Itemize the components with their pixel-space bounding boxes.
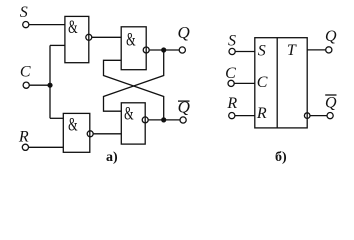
svg-text:C: C <box>257 74 268 91</box>
wire S to gate D1 <box>29 24 65 26</box>
input terminal C (circuit b) <box>228 80 234 86</box>
svg-text:C: C <box>225 65 236 82</box>
NAND gate D3 body <box>121 27 146 70</box>
inversion bubble of gate D2 <box>87 131 93 137</box>
svg-text:S: S <box>228 33 236 50</box>
wire feedback Q to gate D4 pin1 (cross coupling) <box>104 50 164 111</box>
svg-text:а): а) <box>106 150 118 165</box>
svg-text:Q: Q <box>325 94 337 111</box>
svg-text:S: S <box>20 4 28 21</box>
input terminal R (circuit a) <box>22 144 28 150</box>
svg-text:&: & <box>68 18 78 38</box>
svg-text:б): б) <box>275 150 287 165</box>
junction node notQ <box>161 117 166 122</box>
svg-text:Q: Q <box>325 28 337 45</box>
input terminal C (circuit a) <box>23 82 29 88</box>
wire feedback notQ to gate D3 pin2 (cross coupling) <box>104 60 164 120</box>
NAND gate D4 body <box>121 103 145 144</box>
junction node Q <box>161 47 166 52</box>
wire R to gate D2 pin2 <box>29 146 64 148</box>
wire R to symbol box <box>235 115 255 117</box>
overline of notQ label (circuit b) <box>325 94 336 96</box>
wire C to symbol box <box>234 82 255 84</box>
svg-text:&: & <box>68 115 78 135</box>
wire gate D3 output to Q terminal <box>149 49 179 51</box>
output terminal Q (circuit b) <box>326 47 332 53</box>
wire C branch to gate D2 pin1 <box>50 117 63 119</box>
overline of notQ label (circuit a) <box>178 100 190 102</box>
wire gate D4 output to notQ terminal <box>148 119 180 121</box>
wire bubble to notQ terminal (circuit b) <box>310 115 327 117</box>
svg-text:C: C <box>20 64 31 81</box>
inversion bubble of gate D3 <box>143 47 149 53</box>
wire C branch to gate D1 pin2 <box>50 44 65 46</box>
wire S to symbol box <box>235 51 255 53</box>
flip-flop symbol box (circuit b) <box>255 38 307 128</box>
wire C vertical branch <box>49 45 51 118</box>
inversion bubble of gate D1 <box>86 34 92 40</box>
svg-text:S: S <box>258 42 266 59</box>
inversion bubble of gate D4 <box>142 117 148 123</box>
NAND gate D2 body <box>63 113 90 152</box>
input terminal S (circuit b) <box>229 48 235 54</box>
svg-text:R: R <box>256 105 267 122</box>
divider line of symbol box <box>276 38 278 128</box>
wire gate D1 output to gate D3 pin1 <box>92 36 121 38</box>
output terminal Q (circuit a) <box>179 47 185 53</box>
svg-text:Q: Q <box>177 23 189 42</box>
NAND gate D1 body <box>65 16 89 62</box>
output terminal notQ (circuit b) <box>327 113 333 119</box>
wire symbol box to Q terminal (circuit b) <box>307 49 326 51</box>
junction C node <box>47 83 52 88</box>
svg-text:&: & <box>124 104 134 124</box>
svg-text:Q: Q <box>178 97 190 116</box>
input terminal S (circuit a) <box>23 22 29 28</box>
svg-text:T: T <box>287 42 297 59</box>
output terminal notQ (circuit a) <box>180 117 186 123</box>
wire gate D2 output to gate D4 pin2 <box>93 133 121 135</box>
input terminal R (circuit b) <box>229 113 235 119</box>
svg-text:R: R <box>226 95 237 112</box>
inversion bubble of notQ output (circuit b) <box>304 113 310 119</box>
svg-text:&: & <box>126 30 136 50</box>
svg-text:R: R <box>18 129 29 146</box>
wire C to junction <box>29 84 50 86</box>
